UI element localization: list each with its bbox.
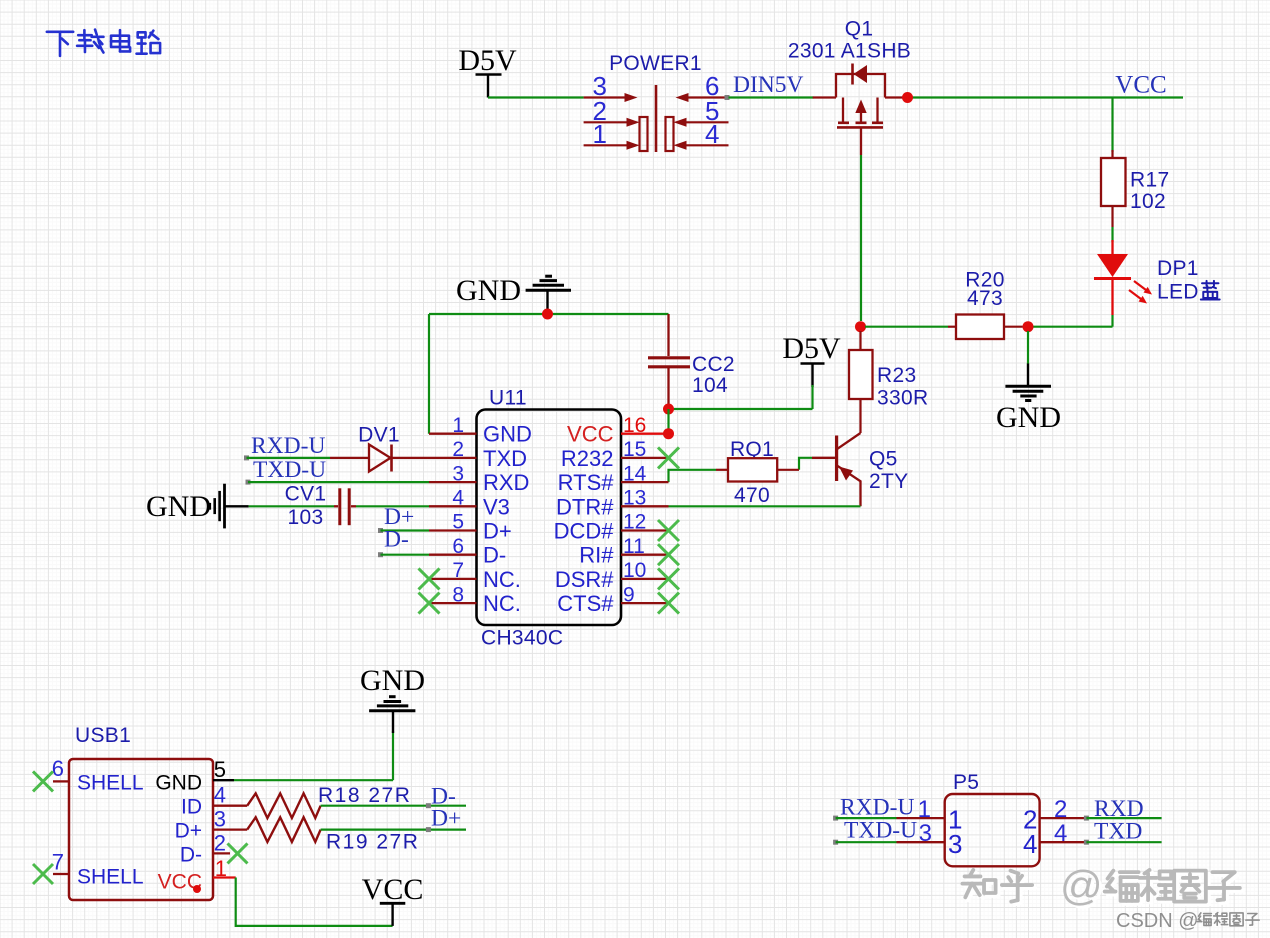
wire USB1 pin5 to GND flag — [234, 779, 393, 781]
wire CC2 to U11 pin16 — [667, 409, 669, 434]
svg-text:POWER1: POWER1 — [609, 52, 702, 75]
svg-text:P5: P5 — [953, 771, 979, 794]
wire CV1 to U11 pin4 — [356, 505, 429, 507]
junction node at Q1 drain / VCC — [902, 92, 913, 103]
U11 pin 15 (R232) — [621, 457, 669, 459]
junction node GND flag on wire — [542, 309, 553, 320]
svg-text:1: 1 — [918, 796, 931, 823]
svg-text:TXD-U: TXD-U — [253, 457, 326, 483]
svg-text:GND: GND — [155, 772, 202, 795]
resistor R23 330R — [859, 331, 861, 350]
DP1 light emission arrows — [1134, 281, 1147, 290]
wire USB1 pin1 to VCC flag — [236, 878, 393, 926]
svg-text:R17: R17 — [1130, 169, 1169, 192]
wire GND to CV1 — [249, 505, 334, 507]
resistor R17 102 — [1111, 150, 1113, 158]
svg-text:D-: D- — [483, 543, 506, 568]
svg-text:2: 2 — [214, 831, 226, 856]
svg-text:330R: 330R — [877, 387, 928, 410]
wire DP1 cathode to junction — [1111, 315, 1113, 327]
svg-text:103: 103 — [288, 506, 324, 529]
svg-text:3: 3 — [948, 829, 962, 859]
wire VCC rail down to R17 — [1111, 98, 1113, 153]
svg-text:SHELL: SHELL — [77, 772, 144, 795]
U11 pin 12 (DCD#) — [621, 529, 669, 531]
junction node at pin16 — [663, 428, 674, 439]
svg-text:SHELL: SHELL — [77, 866, 144, 889]
svg-text:RTS#: RTS# — [558, 470, 615, 495]
svg-text:15: 15 — [623, 438, 646, 461]
svg-text:CC2: CC2 — [692, 353, 735, 376]
Q5 emitter arrow — [839, 467, 853, 481]
svg-text:D+: D+ — [483, 519, 512, 544]
svg-text:Q5: Q5 — [869, 448, 898, 471]
svg-text:R232: R232 — [561, 446, 614, 471]
svg-text:NC.: NC. — [483, 567, 521, 592]
no-connect X on U11 pin8 — [419, 593, 440, 614]
wire RQ1 to Q5 base — [799, 458, 812, 470]
wire U11 pin14 to RQ1 — [669, 470, 717, 482]
svg-text:U11: U11 — [489, 387, 527, 410]
no-connect X on U11 pin 11 — [658, 544, 679, 565]
svg-text:GND: GND — [360, 664, 425, 697]
no-connect X on U11 pin 12 — [658, 520, 679, 541]
svg-text:D5V: D5V — [458, 44, 517, 77]
no-connect X on U11 pin 10 — [658, 568, 679, 589]
wire P5 pin2 to RXD — [1084, 816, 1089, 821]
svg-text:Q1: Q1 — [845, 18, 874, 41]
wire POWER1 pin6 to Q1 — [729, 96, 814, 98]
svg-text:TXD-U: TXD-U — [844, 818, 917, 844]
U11 pin 1 (GND) — [429, 433, 477, 435]
svg-text:R18 27R: R18 27R — [318, 784, 411, 807]
wire U11 pin13 to Q5 emitter — [669, 505, 861, 507]
svg-text:USB1: USB1 — [75, 724, 131, 747]
wire node to R20 — [865, 326, 948, 328]
svg-text:R23: R23 — [877, 364, 916, 387]
svg-text:VCC: VCC — [1115, 72, 1166, 99]
junction node R23/R20/Q1-gate — [855, 321, 866, 332]
svg-text:VCC: VCC — [567, 422, 614, 447]
svg-text:16: 16 — [623, 414, 646, 437]
wire junction down to ground — [1027, 331, 1029, 364]
U11 pin 16 (VCC) — [621, 433, 669, 435]
wire R18 to D- — [321, 805, 466, 807]
P5 pin 4 — [1040, 841, 1087, 843]
svg-text:GND: GND — [996, 401, 1061, 434]
svg-text:TXD: TXD — [483, 446, 527, 471]
svg-text:4: 4 — [214, 783, 226, 808]
wire D5V to POWER1 pin3 — [488, 96, 584, 98]
svg-text:D-: D- — [384, 527, 409, 553]
svg-text:DCD#: DCD# — [554, 519, 615, 544]
svg-text:8: 8 — [452, 583, 464, 606]
svg-text:2301 A1SHB: 2301 A1SHB — [788, 40, 911, 63]
wire R17 to DP1 — [1111, 227, 1113, 242]
svg-text:GND: GND — [146, 490, 211, 523]
net port TXD-U — [246, 480, 251, 485]
svg-text:CH340C: CH340C — [481, 627, 563, 650]
svg-text:NC.: NC. — [483, 591, 521, 616]
svg-text:DSR#: DSR# — [555, 567, 614, 592]
svg-text:5: 5 — [214, 757, 226, 782]
svg-text:3: 3 — [452, 462, 464, 485]
svg-text:2: 2 — [452, 438, 464, 461]
svg-text:1: 1 — [452, 414, 464, 437]
no-connect X on U11 pin 15 — [658, 447, 679, 468]
svg-text:DP1: DP1 — [1157, 257, 1199, 280]
svg-text:12: 12 — [623, 511, 646, 534]
POWER1 left contact box — [640, 117, 648, 151]
no-connect X on U11 pin7 — [419, 568, 440, 589]
svg-text:7: 7 — [52, 850, 64, 875]
U11 pin 4 (V3) — [429, 505, 477, 507]
svg-text:R19 27R: R19 27R — [326, 831, 419, 854]
svg-text:D+: D+ — [175, 820, 202, 843]
svg-text:4: 4 — [1054, 820, 1067, 847]
net port D+ / wire to U11 pin5 — [378, 528, 383, 533]
svg-text:104: 104 — [692, 374, 728, 397]
ground GND (right) — [1027, 364, 1029, 386]
svg-text:@: @ — [1060, 862, 1103, 909]
U11 pin 8 (NC.) — [429, 602, 477, 604]
svg-text:6: 6 — [52, 756, 64, 781]
svg-text:D-: D- — [180, 844, 202, 867]
U11 pin 7 (NC.) — [429, 578, 477, 580]
svg-text:DV1: DV1 — [358, 424, 400, 447]
U11 pin 13 (DTR#) — [621, 505, 669, 507]
svg-text:14: 14 — [623, 462, 647, 485]
svg-text:CTS#: CTS# — [557, 591, 614, 616]
svg-text:CSDN @: CSDN @ — [1116, 910, 1199, 932]
svg-text:LED: LED — [1157, 281, 1199, 304]
svg-text:RI#: RI# — [579, 543, 614, 568]
svg-text:DTR#: DTR# — [556, 494, 614, 519]
U11 pin 5 (D+) — [429, 529, 477, 531]
LED DP1 LED蓝 — [1111, 240, 1113, 254]
net port DIN5V — [725, 95, 730, 100]
wire RXD-U to DV1 — [247, 457, 331, 459]
net port D- / wire to U11 pin6 — [378, 552, 383, 557]
U11 pin 6 (D-) — [429, 554, 477, 556]
svg-text:VCC: VCC — [362, 873, 424, 906]
Q1 body diode — [851, 64, 854, 85]
Q1 channel structure — [843, 98, 878, 123]
svg-text:4: 4 — [452, 487, 464, 510]
svg-text:473: 473 — [967, 287, 1003, 310]
svg-text:7: 7 — [452, 559, 464, 582]
no-connect X on U11 pin 9 — [658, 593, 679, 614]
schematic title 下载电路 — [47, 32, 73, 56]
net port / wire TXD-U to P5 pin3 — [833, 840, 838, 845]
svg-text:5: 5 — [452, 511, 464, 534]
junction node CC2 bottom — [663, 404, 674, 415]
wire Q1 to VCC rail — [903, 96, 1184, 98]
svg-text:ID: ID — [181, 796, 202, 819]
P5 pin 1 — [897, 817, 945, 819]
svg-text:2: 2 — [1054, 796, 1067, 823]
U11 pin 2 (TXD) — [429, 457, 477, 459]
svg-text:13: 13 — [623, 487, 646, 510]
svg-text:10: 10 — [623, 559, 646, 582]
svg-text:470: 470 — [734, 484, 770, 507]
svg-text:RXD-U: RXD-U — [251, 433, 325, 459]
svg-text:6: 6 — [452, 535, 464, 558]
svg-text:11: 11 — [623, 535, 645, 558]
Q1 body arrow — [855, 100, 866, 114]
svg-text:DIN5V: DIN5V — [733, 72, 804, 98]
svg-text:D5V: D5V — [782, 332, 841, 365]
wire TXD-U to U11 pin3 — [248, 481, 429, 483]
U11 pin 10 (DSR#) — [621, 578, 669, 580]
svg-text:102: 102 — [1130, 190, 1166, 213]
wire U11 pin1 to CC2 top (GND net) — [429, 314, 669, 434]
svg-text:V3: V3 — [483, 494, 510, 519]
svg-text:4: 4 — [1023, 829, 1037, 859]
U11 pin 3 (RXD) — [429, 481, 477, 483]
svg-text:CV1: CV1 — [285, 483, 327, 506]
wire Q1 gate to R20 node — [860, 155, 862, 321]
svg-text:D+: D+ — [431, 806, 461, 832]
U11 pin 9 (CTS#) — [621, 602, 669, 604]
svg-text:TXD: TXD — [1094, 819, 1142, 845]
U11 pin 14 (RTS#) — [621, 481, 669, 483]
svg-text:RXD: RXD — [483, 470, 529, 495]
net port / wire RXD-U to P5 pin1 — [833, 816, 838, 821]
POWER1 right contact box — [666, 117, 674, 151]
U11 pin 11 (RI#) — [621, 554, 669, 556]
wire D5V to CC2/VCC node — [811, 385, 813, 409]
svg-text:GND: GND — [456, 274, 521, 307]
svg-text:9: 9 — [623, 583, 635, 606]
svg-text:3: 3 — [214, 807, 226, 832]
svg-text:GND: GND — [483, 422, 532, 447]
P5 pin 2 — [1040, 817, 1087, 819]
wire R19 to D+ — [321, 828, 466, 830]
wire P5 pin4 to TXD — [1084, 840, 1089, 845]
junction node R20/DP1/GND — [1023, 321, 1034, 332]
capacitor CC2 104 — [667, 314, 669, 356]
svg-text:2TY: 2TY — [869, 470, 908, 493]
watermark 知乎 @编程圈子 — [965, 873, 998, 900]
P5 pin 3 — [897, 841, 945, 843]
POWER1 center blade — [655, 85, 658, 152]
net port RXD-U — [244, 455, 249, 460]
Q1 gate lead — [860, 127, 862, 155]
svg-text:3: 3 — [919, 820, 932, 847]
